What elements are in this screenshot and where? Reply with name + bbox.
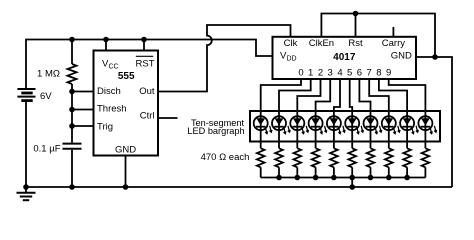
wire: 4017 output 4 to LED 4 and resistor to bus [334,79,340,148]
svg-text:9: 9 [386,68,391,79]
LED D2 [290,116,308,134]
LED D5 [345,116,363,134]
junction dot: Rst on tie wire [353,11,359,17]
resistor R2 470 Ohm [294,148,302,177]
wire: stub to Trig pin [72,125,94,127]
junction dot at Thresh node [69,107,75,113]
wire: 4017 GND pin to right rail down to bottom rail [416,57,452,187]
IC U2 4017 decade counter body [273,37,417,79]
wire: battery negative down to bottom rail [25,101,27,187]
svg-text:Disch: Disch [97,86,121,97]
svg-text:0: 0 [298,68,303,79]
labels output pin numbers 0-9 [298,68,391,79]
svg-text:Thresh: Thresh [97,104,127,115]
label Ten-segment LED bargraph [187,118,244,136]
svg-text:Carry: Carry [382,38,405,49]
resistor 1 MOhm [68,40,77,92]
svg-text:6: 6 [357,68,362,79]
resistor R7 470 Ohm [385,148,393,177]
wire: Disch junction to Trig junction vertical [71,92,73,127]
junction dot: resistor 5 at bus [349,175,355,181]
svg-text:RST: RST [136,59,155,70]
resistor R8 470 Ohm [403,148,411,177]
svg-text:5: 5 [347,68,352,79]
junction dot: resistor 4 at bus [331,175,337,181]
junction dot: capacitor at bottom rail [69,184,75,190]
wire: 4017 output 6 to LED 6 and resistor to bus [359,79,370,148]
junction dot: resistor 8 at bus [404,175,410,181]
LED D6 [364,116,382,134]
svg-text:GND: GND [115,145,136,156]
junction dot: resistor 1 at bus [276,175,282,181]
label RST (active low) of 555 [136,56,155,69]
svg-text:8: 8 [376,68,381,79]
ground symbol [17,187,36,200]
svg-text:Trig: Trig [97,122,113,133]
wire: battery positive to VCC rail, rail to 4017 VDD [26,40,273,90]
LED D8 [400,116,418,134]
pin RST stub of 555 [143,40,145,51]
svg-text:Out: Out [139,86,155,97]
junction dot: resistor 7 at bus [386,175,392,181]
wire: 4017 output 2 to LED 2 and resistor to bus [297,79,320,148]
label Vdd of 4017 [280,51,297,63]
op IC U1 555 timer body [94,51,159,156]
svg-text:Ctrl: Ctrl [140,111,155,122]
LED D4 [327,116,345,134]
svg-text:GND: GND [391,51,412,62]
svg-text:7: 7 [367,68,372,79]
junction dot: resistor 3 at bus [313,175,319,181]
svg-text:2: 2 [318,68,323,79]
wire: stub to Thresh pin [72,109,94,111]
wire: bus drop to bottom rail [351,178,353,188]
pin VCC stub of 555 [105,40,107,51]
svg-text:1: 1 [308,68,313,79]
svg-text:1 MΩ: 1 MΩ [37,69,60,80]
svg-text:Clk: Clk [284,38,298,49]
svg-text:4: 4 [337,68,342,79]
svg-text:6V: 6V [40,91,52,102]
pin Carry stub of 4017 (unconnected) [392,27,394,37]
pin Rst stub of 4017 [355,14,357,37]
wire: stub to Disch pin [72,91,94,93]
resistor R5 470 Ohm [348,148,356,177]
svg-text:555: 555 [118,71,135,82]
LED D9 [418,116,436,134]
junction dot: ground at bottom rail [23,184,29,190]
wire: 4017 output 5 to LED 5 and resistor to bus [350,79,353,148]
resistor R3 470 Ohm [312,148,320,177]
junction dot: GND net junction [432,54,438,60]
label Vcc of 555 [102,59,119,71]
resistor R4 470 Ohm [330,148,338,177]
wire: 555 Out to 4017 Clk with hop over VCC rail [158,25,291,92]
junction dot: 555 GND at bottom rail [123,184,129,190]
resistor R9 470 Ohm [422,148,430,177]
resistor R6 470 Ohm [367,148,375,177]
svg-text:LED bargraph: LED bargraph [187,126,244,136]
wire: resistor common bus [261,177,426,179]
junction dot: resistor 2 at bus [295,175,301,181]
wire: ClkEn and Rst tied to GND net [321,14,435,58]
junction dot: RST pin at rail [141,37,147,43]
pin Ctrl stub of 555 (unconnected) [158,117,178,119]
svg-text:4017: 4017 [333,52,356,63]
wire: 4017 output 1 to LED 1 and resistor to bus [279,79,311,148]
svg-text:0.1 µF: 0.1 µF [33,144,60,155]
junction dot: bus drop at bottom rail [349,184,355,190]
wire: 4017 output 8 to LED 8 and resistor to bus [379,79,407,148]
junction dot: resistor 6 at bus [368,175,374,181]
LED D0 [254,116,272,134]
pin GND stub of 555 [125,156,127,188]
svg-text:3: 3 [328,68,333,79]
LED D3 [309,116,327,134]
svg-text:ClkEn: ClkEn [309,38,334,49]
wire: 4017 output 3 to LED 3 and resistor to bus [316,79,331,148]
junction dot: resistor top at VCC rail [69,37,75,43]
resistor R0 470 Ohm [257,148,265,177]
LED D7 [382,116,400,134]
resistor R1 470 Ohm [275,148,283,177]
wire: 4017 output 0 to LED 0 and resistor to bus [261,79,301,148]
svg-text:Rst: Rst [348,38,363,49]
wire: 4017 output 7 to LED 7 and resistor to bus [369,79,389,148]
junction dot: VCC pin at rail [103,37,109,43]
junction dot at Trig node [69,123,75,129]
svg-text:470 Ω each: 470 Ω each [201,152,250,163]
bottom ground rail wire [26,186,452,188]
svg-text:DD: DD [287,56,297,63]
battery 6V [17,89,35,101]
wire: 4017 output 9 to LED 9 and resistor to bus [389,79,426,148]
LED D1 [272,116,290,134]
junction dot at Disch node [69,89,75,95]
svg-text:CC: CC [109,64,119,71]
LED bargraph package outline [250,111,440,142]
capacitor 0.1 uF [63,126,82,187]
